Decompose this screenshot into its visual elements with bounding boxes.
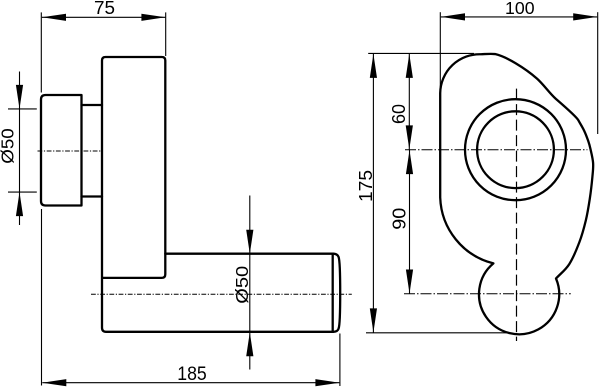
dim 75 left extension line bbox=[40, 12, 42, 92]
svg-text:75: 75 bbox=[94, 0, 115, 18]
dim 75 line bbox=[42, 16, 166, 18]
svg-text:90: 90 bbox=[388, 208, 409, 230]
dim 185 right extension line bbox=[339, 334, 341, 387]
horizontal centerline upper bbox=[405, 149, 587, 151]
dim 60 top arrow bbox=[406, 54, 413, 78]
horizontal centerline lower bbox=[404, 293, 571, 295]
dim 100 right extension line bbox=[597, 12, 599, 134]
dim diam50 pipe bottom arrow bbox=[246, 332, 253, 356]
svg-text:Ø50: Ø50 bbox=[232, 265, 252, 303]
dim 60 bottom arrow bbox=[406, 125, 413, 149]
body and outlet pipe outline bbox=[102, 57, 340, 332]
dim diam50 flange top tick bbox=[8, 108, 37, 110]
flange (inlet socket) bbox=[41, 95, 82, 206]
inner circle (inlet opening) bbox=[477, 111, 554, 188]
dim 75 right extension line bbox=[165, 12, 167, 56]
dim 175 line bbox=[372, 53, 374, 332]
dim 175 top arrow bbox=[370, 54, 377, 78]
pipe centerline bbox=[91, 293, 352, 295]
dim 90 top arrow bbox=[406, 150, 413, 174]
outer circle (gasket seat) bbox=[465, 99, 566, 200]
dim 185 line bbox=[42, 382, 339, 384]
dim 75 left arrow bbox=[42, 14, 66, 21]
vertical centerline bbox=[516, 89, 518, 341]
top reference tick line bbox=[368, 52, 474, 54]
dim diam50 flange top arrow bbox=[16, 85, 23, 109]
dim 90 bottom arrow bbox=[406, 270, 413, 294]
pipe end inner line bbox=[332, 254, 334, 331]
dim diam50 flange bottom tick bbox=[8, 191, 37, 193]
right view: front elevation body outline bbox=[440, 54, 593, 334]
dim 60 line bbox=[408, 53, 410, 149]
dim 100 line bbox=[441, 16, 597, 18]
dim 185 left arrow bbox=[42, 379, 66, 386]
neck bottom line bbox=[82, 195, 103, 197]
dim 100 right arrow bbox=[573, 13, 597, 20]
svg-text:185: 185 bbox=[177, 363, 207, 385]
svg-text:60: 60 bbox=[388, 104, 409, 124]
dim 75 right arrow bbox=[141, 14, 165, 21]
neck top line bbox=[82, 104, 103, 106]
bottom reference tick line bbox=[366, 332, 508, 334]
dim 175 bottom arrow bbox=[370, 308, 377, 332]
dim 100 left arrow bbox=[441, 13, 465, 20]
svg-text:100: 100 bbox=[505, 0, 535, 18]
dim 185 left extension line bbox=[41, 209, 43, 386]
dim diam50 flange line bbox=[19, 72, 21, 226]
dim 185 right arrow bbox=[315, 379, 339, 386]
dim diam50 pipe top arrow bbox=[246, 230, 253, 254]
dim diam50 flange bottom arrow bbox=[16, 192, 23, 216]
dim 90 line bbox=[409, 150, 411, 294]
dim diam50 pipe line bbox=[249, 196, 251, 370]
body inner step line bbox=[103, 254, 166, 278]
dim 100 left extension line bbox=[439, 12, 441, 91]
svg-text:Ø50: Ø50 bbox=[0, 128, 17, 164]
svg-text:175: 175 bbox=[355, 170, 376, 202]
flange centerline bbox=[38, 150, 102, 152]
